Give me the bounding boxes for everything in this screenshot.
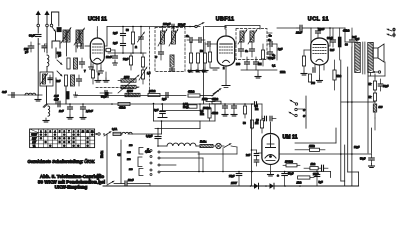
cap det3 [254, 57, 259, 70]
main bottom bus [103, 185, 359, 187]
wire y121 [153, 103, 215, 121]
label 90V [345, 44, 348, 47]
capacitor 50pF [42, 46, 47, 48]
svg-text:250V: 250V [230, 182, 237, 185]
cathode RC [308, 68, 322, 82]
junction y104 [69, 103, 253, 105]
IF2 trim arrows [238, 30, 257, 45]
resistor anode UCH [104, 48, 115, 53]
corner x358 [358, 172, 360, 186]
wire x204 down [203, 27, 205, 105]
capacitor 30pF [35, 35, 41, 37]
left col bus [8, 94, 42, 96]
wire [55, 48, 57, 58]
svg-text:MΩ: MΩ [200, 113, 204, 116]
junction [122, 52, 142, 54]
svg-text:2M: 2M [258, 63, 261, 66]
label C2 [186, 34, 189, 38]
svg-text:50µF: 50µF [288, 173, 294, 176]
speaker terminal row [373, 71, 381, 78]
resistor dark mid [67, 92, 70, 100]
coil L4 [71, 75, 75, 86]
capacitor 100pF [28, 42, 34, 52]
sel bracket2 [138, 157, 142, 167]
wire up from bus [69, 95, 71, 104]
label bottom left [97, 175, 101, 181]
sel dots [150, 150, 152, 176]
svg-text:2kΩ: 2kΩ [296, 181, 302, 185]
svg-text:2nF: 2nF [246, 154, 251, 157]
svg-text:Ω: Ω [117, 153, 121, 156]
top wire ucl [311, 27, 345, 29]
rail x341 [340, 60, 342, 181]
svg-text:220pF: 220pF [268, 57, 275, 60]
label 100pF [24, 47, 29, 54]
rail x371 [371, 128, 373, 153]
label 10nF [106, 56, 112, 59]
ground caps top2 [103, 72, 109, 82]
svg-text:UCL 11: UCL 11 [308, 17, 329, 23]
cap vg2 [231, 104, 237, 116]
IF2 coil a [240, 31, 244, 42]
resistor rosc [141, 53, 144, 67]
label 4700 [342, 29, 349, 33]
capacitor 2uF a [121, 27, 126, 36]
label mains [112, 128, 117, 131]
IF1 coil b [172, 31, 176, 44]
wire x161 down [161, 120, 163, 134]
sel wire3 [160, 164, 176, 166]
cap stack 2nF [246, 150, 262, 166]
label 8uF [354, 146, 360, 149]
svg-text:300: 300 [379, 106, 384, 109]
loop bottom [52, 41, 60, 48]
svg-text:1MΩ: 1MΩ [309, 144, 315, 148]
heater top wire [157, 145, 159, 147]
speaker terminals [387, 28, 395, 36]
vert x107 [100, 134, 107, 184]
ground arrow 7b [74, 92, 78, 97]
switch contact c [57, 60, 62, 65]
res 40k [187, 90, 200, 98]
wire rail 70 [241, 69, 277, 71]
wire y128.5 [155, 121, 200, 129]
cap c2b [196, 38, 205, 43]
svg-text:2µF: 2µF [113, 31, 118, 35]
svg-text:2µF: 2µF [113, 41, 118, 45]
svg-text:1µF: 1µF [162, 98, 167, 101]
label UCH 11 [88, 17, 107, 23]
left cap ubf [205, 42, 217, 47]
wire tube pins [93, 64, 101, 72]
resistor g2 [196, 53, 199, 68]
TA terminals [289, 100, 306, 118]
label 47ohm [145, 151, 150, 154]
pot arrow ubf [213, 89, 221, 95]
ground left [35, 95, 41, 101]
label 2M det [280, 71, 285, 74]
wire if1 [163, 28, 174, 32]
label 30pF [29, 35, 35, 38]
label 100pF det [236, 63, 241, 66]
svg-text:1kΩ: 1kΩ [311, 163, 316, 166]
lamp switch [221, 143, 237, 147]
label 2M [258, 63, 261, 66]
label UCL 11 [308, 17, 329, 23]
IF1 coil a [161, 31, 165, 44]
dropper coil [167, 143, 196, 146]
caption line1 [40, 174, 104, 179]
svg-text:+: + [277, 174, 279, 178]
svg-text:100pF: 100pF [163, 22, 171, 26]
capacitor c4 [77, 75, 82, 86]
wire y110 [160, 104, 200, 111]
IF1 coil c [170, 55, 174, 67]
label 50k ubf [200, 50, 203, 53]
res extra mid [184, 105, 218, 115]
wire right edge [393, 28, 395, 37]
shield partition [149, 27, 151, 95]
antenna A2 [44, 11, 49, 25]
IF2 coil b [250, 31, 254, 42]
wire anode right [104, 27, 107, 47]
cap C5 [267, 42, 277, 47]
svg-text:1µF: 1µF [154, 109, 159, 112]
fuse [113, 132, 122, 135]
svg-text:47kΩ: 47kΩ [211, 98, 218, 101]
corner y181 [341, 180, 345, 182]
resistor det [261, 44, 264, 66]
sel wire4 [222, 148, 224, 172]
res 300 hatched [373, 104, 383, 118]
rail x368 [367, 60, 369, 153]
wire trans top [345, 28, 358, 42]
top wire UCH [107, 26, 200, 28]
label Netz [100, 151, 104, 158]
label 2uF det [278, 47, 283, 51]
mains terminal L [95, 133, 100, 135]
resistor 4700 [338, 28, 341, 60]
cap 1nF gnd [59, 104, 73, 119]
svg-text:4nF: 4nF [54, 94, 59, 98]
IF1 trim arrows [158, 29, 178, 46]
tuned circuit box [40, 72, 53, 86]
resistor g3 [203, 42, 206, 68]
coil under [43, 106, 50, 122]
label 15k [255, 105, 258, 111]
label C5 [268, 38, 272, 42]
svg-text:10nF: 10nF [319, 28, 325, 31]
res 1M um [260, 116, 263, 133]
speaker [373, 44, 384, 62]
resistor r2 [64, 75, 67, 86]
svg-text:1M: 1M [255, 122, 258, 125]
capacitor 20nF grid [81, 44, 83, 49]
text 0.5A [183, 103, 189, 109]
label 2uF a [113, 31, 118, 35]
res 50n um [250, 120, 253, 129]
corner y172 [348, 171, 359, 173]
AVC bus [75, 95, 213, 97]
label 4nF [54, 94, 59, 98]
ground 7a [89, 60, 93, 69]
svg-text:UM 11: UM 11 [283, 134, 298, 140]
sel wire2 [160, 158, 203, 172]
label C4 [269, 34, 272, 38]
svg-text:2µF: 2µF [278, 47, 283, 51]
AVC cap 1nF [162, 93, 168, 102]
resistor 51k ucl [333, 60, 336, 90]
switch contact d [57, 71, 62, 76]
svg-text:TA: TA [33, 145, 36, 148]
res 1k row [304, 163, 318, 170]
junction bus [284, 185, 301, 187]
sel dots2 [158, 151, 160, 173]
svg-text:4nF: 4nF [56, 80, 61, 83]
res 0.5M mid [200, 104, 211, 122]
svg-text:23nF: 23nF [295, 31, 302, 35]
res UCL gridleak [301, 50, 311, 75]
ground ubf [211, 68, 219, 70]
tube pins ubf [223, 66, 226, 85]
tube ucl pins [315, 65, 324, 76]
vert x121 [120, 140, 122, 184]
label sigma [117, 153, 121, 156]
cap TA series [252, 102, 263, 119]
label 0.1 det [272, 65, 276, 68]
svg-text:Entbr.: Entbr. [200, 141, 207, 144]
label 20nF [327, 37, 333, 40]
cap 20nF [331, 28, 336, 47]
cap det2 [268, 46, 273, 60]
wire [37, 44, 39, 96]
svg-text:4nF: 4nF [2, 90, 7, 94]
tube UCH11 [90, 38, 104, 64]
wire [38, 39, 40, 99]
caption line2 [38, 179, 105, 184]
wire y154 [280, 153, 372, 155]
cap 4nF series [54, 98, 60, 107]
svg-text:C₃: C₃ [245, 49, 248, 53]
tube UCL11 [311, 38, 328, 65]
coil pair with core [61, 28, 71, 44]
wire ucl grid [310, 28, 312, 48]
label 5nF ucl [330, 49, 335, 52]
diode out wire [267, 32, 272, 34]
ground pins [99, 68, 103, 73]
label 5k right [369, 83, 372, 86]
gnd tube ubf [222, 86, 230, 88]
wire x306 down [305, 96, 307, 128]
wire [46, 67, 48, 73]
cap 10nF ucl [316, 28, 321, 38]
svg-text:UBF11: UBF11 [216, 17, 235, 23]
sel bracket1 [139, 148, 143, 155]
svg-text:C₄: C₄ [269, 34, 272, 38]
wire y102 [341, 101, 375, 103]
wire ucl anode [328, 28, 330, 46]
ground arrow bus [43, 104, 48, 108]
diode D2 [265, 183, 274, 189]
label pins sel [127, 145, 133, 171]
cap 50uF right [360, 154, 374, 164]
svg-text:20kΩ: 20kΩ [148, 89, 155, 93]
svg-text:4nF: 4nF [54, 98, 59, 102]
cap 100pF det [245, 57, 250, 70]
svg-text:1nF: 1nF [59, 109, 64, 113]
svg-text:ÜKW: ÜKW [31, 134, 37, 137]
IF2 cap a [239, 42, 244, 57]
wire [45, 44, 48, 52]
resistor left ubf [208, 46, 211, 68]
label 23nF [295, 31, 302, 35]
wire vert [55, 78, 57, 104]
wire top right [122, 26, 225, 28]
shield wire over [225, 26, 260, 30]
wire det down [276, 44, 278, 60]
label 7 pin [84, 69, 86, 73]
cap 10uF right [378, 79, 389, 91]
coil L1 [47, 55, 49, 66]
osc coil [118, 75, 139, 96]
resistor dark [57, 28, 61, 32]
wire [46, 44, 48, 53]
um top wire [256, 116, 276, 133]
tube UM11 [262, 134, 279, 165]
label 4nF b [56, 80, 61, 83]
wire spk [368, 62, 385, 76]
svg-text:25µF: 25µF [229, 175, 235, 178]
dial lamp [213, 143, 221, 148]
svg-text:100kΩ: 100kΩ [285, 159, 293, 163]
mains switch [103, 132, 111, 137]
svg-text:C₂: C₂ [186, 34, 189, 38]
pot arrow [139, 67, 147, 84]
IF1 cap a [159, 44, 164, 60]
caption line3 [55, 185, 88, 190]
cap 50uF plus [277, 172, 294, 187]
switch contact a2 [46, 24, 49, 27]
label 100pF top [163, 22, 171, 26]
grid cap wire [85, 45, 90, 47]
svg-text:0,1µF: 0,1µF [146, 135, 153, 138]
svg-text:3000: 3000 [127, 89, 133, 93]
res 100k [283, 159, 300, 167]
svg-text:16µF: 16µF [354, 146, 360, 149]
switch sw-top [189, 22, 204, 27]
svg-text:1MΩ: 1MΩ [202, 98, 207, 101]
svg-text:pF: pF [25, 50, 29, 54]
label 2nF [352, 36, 357, 39]
wire mains [128, 133, 162, 135]
svg-text:MW: MW [32, 137, 37, 140]
diode D1 [250, 183, 259, 189]
capacitor 23nF [297, 25, 311, 31]
label 500k [203, 107, 210, 110]
IF2 dashed box [236, 29, 267, 60]
svg-text:Gezeichnete Schalterstellung:: Gezeichnete Schalterstellung: ÜKW. [28, 159, 96, 164]
svg-text:100pF: 100pF [178, 24, 186, 27]
ground ua [113, 60, 117, 65]
svg-text:0,1A: 0,1A [112, 128, 117, 131]
coil L3 [74, 58, 78, 69]
resistor pin [91, 70, 94, 84]
label 1M 47k [202, 98, 218, 101]
svg-text:100: 100 [236, 63, 241, 66]
wire drop [158, 145, 200, 147]
svg-text:47kΩ: 47kΩ [342, 29, 349, 33]
label 250V [230, 182, 237, 185]
svg-text:50µF: 50µF [360, 158, 366, 161]
svg-text:2,5nF: 2,5nF [85, 109, 93, 113]
coil left [25, 93, 36, 95]
output transformer [355, 38, 374, 74]
wire trans to anode [323, 42, 325, 44]
svg-text:10µF: 10µF [383, 85, 389, 88]
svg-text:47kΩ: 47kΩ [211, 112, 218, 115]
wire x215 v [214, 104, 216, 121]
IF1 dashed box [155, 28, 185, 72]
wire x375 down [371, 118, 375, 130]
ground caps top [95, 72, 101, 82]
bus y104 [48, 103, 252, 105]
svg-text:UKW-Empfang: UKW-Empfang [55, 185, 88, 190]
wire lamp down [198, 147, 237, 154]
wire ubf plate top [225, 26, 236, 36]
svg-text:5nF: 5nF [330, 49, 335, 52]
gnd 50uF [369, 164, 375, 168]
wire [37, 27, 39, 33]
trimmer osc [138, 27, 145, 54]
cap 2nF [350, 28, 355, 47]
wire anode up [96, 27, 98, 39]
wire [76, 40, 81, 52]
pot boxes [206, 99, 221, 104]
cap c2a [187, 38, 196, 43]
bottom switch [96, 181, 114, 185]
capacitor 10nF [113, 53, 118, 58]
wire ubf anode [235, 43, 236, 45]
AVC cap [106, 93, 108, 98]
label C3 [245, 49, 248, 53]
svg-text:47kΩ: 47kΩ [118, 106, 125, 110]
bottom cap [114, 179, 150, 186]
gang dashed line [96, 87, 140, 89]
label Cs [272, 53, 276, 57]
capacitor 50pF gang [100, 91, 112, 96]
sel bracket3 [139, 169, 143, 176]
wire vert2 [65, 86, 67, 104]
switch position table [30, 129, 95, 148]
svg-text:kΩ: kΩ [255, 108, 258, 111]
dipole bracket [52, 12, 59, 26]
coil pair2 [74, 28, 85, 48]
res 2k bottom2 [296, 176, 315, 185]
label 220pF [268, 57, 275, 60]
label 0.1 [188, 70, 206, 73]
cap vg1 [222, 104, 228, 116]
rail x348 [347, 67, 349, 172]
rail x352 [351, 47, 353, 186]
label um r [243, 122, 258, 125]
sel wire1 [160, 152, 199, 172]
resistor rk [129, 53, 132, 70]
wire [55, 32, 57, 40]
switch contact a1 [37, 24, 40, 27]
caption schalterstellung [28, 159, 96, 164]
label C1 [155, 55, 158, 59]
res 1M right um [295, 144, 325, 152]
